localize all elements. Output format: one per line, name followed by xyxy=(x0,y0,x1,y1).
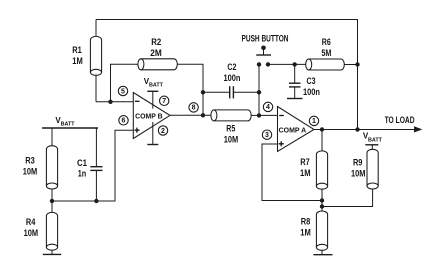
resistor R3 xyxy=(46,146,57,189)
svg-text:8: 8 xyxy=(192,105,196,112)
svg-text:5: 5 xyxy=(121,88,125,95)
label C3 100n xyxy=(303,76,320,97)
minus sign pin5 xyxy=(135,100,140,102)
svg-text:R4: R4 xyxy=(26,217,36,227)
label R7 1M xyxy=(300,157,311,178)
wire feedback riser to R2 left xyxy=(111,64,138,102)
plus sign pin3 xyxy=(279,141,284,146)
svg-text:R5: R5 xyxy=(226,124,235,134)
svg-text:1M: 1M xyxy=(300,228,311,238)
ground stem of COMP B xyxy=(147,122,158,145)
svg-text:7: 7 xyxy=(162,98,166,105)
ground of C3 xyxy=(287,98,303,100)
wire riser pushbutton/C2/pin4 xyxy=(258,64,260,115)
wire R3 bottom lead xyxy=(51,189,53,201)
node C1 bottom junction xyxy=(94,199,98,203)
capacitor C2 xyxy=(230,86,234,98)
svg-text:2M: 2M xyxy=(150,48,162,58)
arrowhead TO LOAD xyxy=(414,126,422,132)
node R2/C2 tap xyxy=(201,90,205,94)
label C1 1n xyxy=(77,158,87,179)
node junction R1/R2/pin5 xyxy=(108,100,112,104)
svg-text:4: 4 xyxy=(266,104,270,111)
capacitor C1 xyxy=(90,128,102,201)
resistor R8 xyxy=(316,211,327,250)
wire R4 top lead xyxy=(51,201,53,212)
wire R7 top lead xyxy=(321,130,323,151)
svg-text:1n: 1n xyxy=(78,169,87,179)
wire R8 bottom lead xyxy=(321,250,323,254)
wire COMP B output to R5 xyxy=(170,114,211,116)
svg-text:C3: C3 xyxy=(307,76,316,86)
wire R1 top lead xyxy=(95,20,97,37)
plus sign pin6 xyxy=(134,128,139,133)
node C2/riser xyxy=(257,90,261,94)
svg-text:BATT: BATT xyxy=(61,121,76,127)
svg-text:R3: R3 xyxy=(25,156,35,166)
node R3/R4 junction xyxy=(50,199,54,203)
svg-text:5M: 5M xyxy=(321,48,331,58)
ground of R8 xyxy=(314,254,333,256)
resistor R6 xyxy=(306,59,345,70)
label R4 10M xyxy=(24,217,39,238)
node COMP A out / R7 xyxy=(320,127,324,131)
svg-text:R6: R6 xyxy=(322,37,331,47)
svg-text:1: 1 xyxy=(312,118,316,125)
wire R2 right lead down to COMP B output xyxy=(177,64,203,115)
svg-text:R7: R7 xyxy=(300,157,310,167)
node output / right rail xyxy=(355,127,359,131)
pin 6 xyxy=(119,116,128,125)
VBATT symbol above R9 xyxy=(363,132,383,150)
pin 3 xyxy=(262,130,271,139)
VBATT symbol left rail xyxy=(42,116,98,128)
pin 8 xyxy=(189,103,198,112)
resistor R9 xyxy=(367,149,378,189)
svg-text:10M: 10M xyxy=(224,135,239,145)
svg-text:COMP B: COMP B xyxy=(135,111,163,120)
label R1 1M xyxy=(72,45,83,66)
VBATT supply stem of COMP B xyxy=(144,77,164,109)
wire pushbutton right to R6 xyxy=(268,63,306,65)
node C3 tap xyxy=(293,62,297,66)
svg-text:C1: C1 xyxy=(77,158,87,168)
svg-text:PUSH BUTTON: PUSH BUTTON xyxy=(242,34,289,44)
node pin4 riser junction xyxy=(257,113,261,117)
capacitor C3 xyxy=(289,64,301,98)
svg-text:C2: C2 xyxy=(227,62,236,72)
wire R6 right lead xyxy=(344,64,357,66)
label R9 10M xyxy=(351,158,366,179)
label R6 5M xyxy=(321,37,331,58)
svg-text:10M: 10M xyxy=(23,167,38,177)
svg-text:R1: R1 xyxy=(72,45,82,55)
svg-text:1M: 1M xyxy=(72,56,83,66)
ground of R4 xyxy=(43,253,61,255)
pin 2 xyxy=(158,126,167,135)
resistor R5 xyxy=(211,110,251,121)
wire COMP A output to load xyxy=(314,129,416,131)
wire R1 bottom lead xyxy=(95,75,97,102)
svg-text:100n: 100n xyxy=(224,73,241,83)
svg-text:R9: R9 xyxy=(353,158,363,168)
label R3 10M xyxy=(23,156,38,177)
svg-text:3: 3 xyxy=(265,132,269,139)
label R8 1M xyxy=(300,217,311,238)
wire R3 top lead xyxy=(51,128,53,146)
svg-text:R8: R8 xyxy=(301,217,311,227)
wire R4 bottom lead xyxy=(51,250,53,254)
node R7/pin3 xyxy=(320,198,324,202)
svg-text:100n: 100n xyxy=(303,87,320,97)
wire R9 bottom return xyxy=(322,189,373,207)
svg-text:TO LOAD: TO LOAD xyxy=(385,115,415,125)
resistor R1 xyxy=(90,36,101,75)
resistor R4 xyxy=(46,212,57,250)
resistor R2 xyxy=(138,59,177,70)
wire C2 right lead xyxy=(233,91,259,93)
pin 4 xyxy=(263,102,272,111)
pin 1 xyxy=(309,116,318,125)
svg-text:BATT: BATT xyxy=(149,83,164,89)
op-amp COMP A xyxy=(278,107,315,152)
svg-text:10M: 10M xyxy=(24,228,39,238)
wire top rail from R1 top to right side down to output xyxy=(96,20,358,130)
svg-text:COMP A: COMP A xyxy=(279,125,307,134)
wire pin6 loop xyxy=(52,130,133,201)
wire pin5 input of COMP B xyxy=(96,101,133,103)
svg-text:2: 2 xyxy=(161,128,165,135)
label R2 2M xyxy=(150,37,162,58)
label R5 10M xyxy=(224,124,239,145)
svg-text:R2: R2 xyxy=(151,37,161,47)
node R2/COMP B output xyxy=(201,113,205,117)
svg-text:10M: 10M xyxy=(351,168,366,178)
svg-text:6: 6 xyxy=(122,118,126,125)
svg-text:BATT: BATT xyxy=(368,137,383,143)
minus sign pin4 xyxy=(279,115,284,117)
push button S1 xyxy=(256,46,271,67)
node R9 return xyxy=(320,204,324,208)
op-amp COMP B xyxy=(133,93,170,139)
pin 7 xyxy=(160,96,169,105)
wire C2 left lead xyxy=(203,91,230,93)
label C2 100n xyxy=(224,62,241,83)
resistor R7 xyxy=(316,151,327,189)
wire pin3 loop xyxy=(262,144,322,201)
wire R5 right to COMP A pin4 xyxy=(251,114,277,116)
wire R7 bottom to R8 top xyxy=(321,189,323,211)
pin 5 xyxy=(118,86,127,95)
svg-text:1M: 1M xyxy=(300,168,311,178)
node R6/top rail xyxy=(355,62,359,66)
